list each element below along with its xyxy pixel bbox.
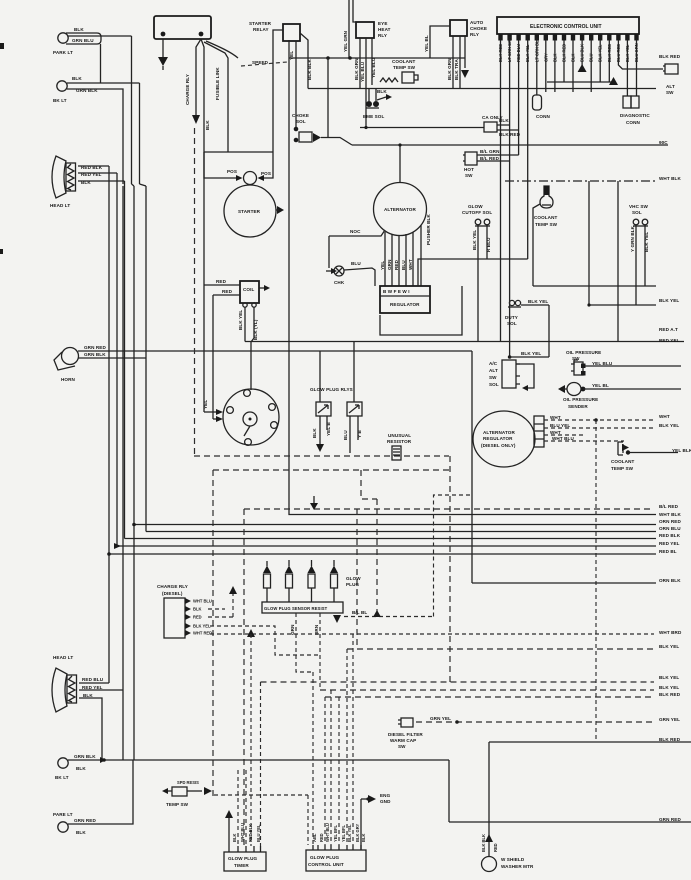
dashed x357 [356, 509, 358, 649]
svg-text:COOLANT: COOLANT [611, 459, 635, 464]
svg-text:GLOW PLUG: GLOW PLUG [228, 856, 258, 861]
charge rly pin BLK [185, 606, 191, 612]
node [326, 56, 330, 60]
svg-text:TIMER: TIMER [234, 863, 249, 868]
ECU pin 16 [634, 34, 638, 41]
wire junction headlight to columns [109, 166, 146, 186]
charge rly pin RED [185, 614, 191, 620]
wire park lt drop [100, 44, 102, 83]
svg-text:BLK YEL: BLK YEL [625, 44, 630, 62]
svg-text:HEAT: HEAT [378, 27, 391, 32]
wire starter relay pins [289, 33, 656, 515]
svg-text:WHT BLU: WHT BLU [552, 436, 574, 441]
starter solenoid [244, 172, 257, 185]
glow plug 4 [330, 566, 338, 574]
svg-text:NOC: NOC [350, 229, 361, 234]
svg-text:BLK GRN: BLK GRN [354, 58, 359, 80]
svg-text:RLY: RLY [378, 33, 387, 38]
svg-text:GRN BLK: GRN BLK [84, 352, 106, 357]
svg-text:CHARGE RLY: CHARGE RLY [157, 584, 188, 589]
svg-text:YEL: YEL [203, 400, 208, 409]
svg-text:Y B: Y B [357, 430, 362, 438]
svg-text:ALTERNATOR: ALTERNATOR [483, 430, 515, 435]
svg-text:BLU: BLU [351, 261, 361, 266]
svg-text:BLU YEL: BLU YEL [550, 423, 570, 428]
svg-text:SPD RESIS: SPD RESIS [177, 780, 199, 785]
oil pressure sender [558, 383, 609, 410]
svg-text:90C: 90C [659, 140, 668, 145]
dashed box A left [194, 128, 196, 456]
svg-text:YEL BL: YEL BL [424, 35, 429, 52]
svg-text:ABL: ABL [312, 833, 317, 842]
svg-text:SOL: SOL [507, 321, 517, 326]
node on y58 [348, 56, 352, 60]
headlight HEAD LT lower [52, 655, 104, 712]
svg-text:(DIESEL ONLY): (DIESEL ONLY) [481, 443, 516, 448]
orn blk line y583 [472, 582, 656, 584]
coolant temp sw bulb [534, 186, 558, 227]
svg-text:GRY: GRY [543, 53, 548, 62]
line y181 [505, 180, 656, 182]
long line y145 [352, 144, 668, 146]
svg-text:BLK GRY: BLK GRY [355, 823, 360, 842]
line y341 [245, 341, 684, 343]
svg-text:SPEED: SPEED [252, 60, 269, 65]
svg-text:BLK YEL: BLK YEL [659, 423, 679, 428]
svg-text:YEL BLU: YEL BLU [360, 61, 365, 82]
d4 y680 [261, 681, 655, 683]
svg-text:BLK: BLK [312, 428, 317, 438]
svg-text:YEL: YEL [380, 261, 385, 270]
svg-text:SW: SW [398, 744, 406, 749]
svg-text:BLK BLK: BLK BLK [307, 59, 312, 80]
wire bk lt horizontal [67, 82, 140, 84]
wire bus vertical x139 [139, 83, 141, 184]
svg-text:SW: SW [666, 90, 674, 95]
glow plug 3 [308, 566, 316, 574]
svg-text:WHT BLU: WHT BLU [240, 823, 245, 842]
svg-text:RED BLK: RED BLK [659, 533, 681, 538]
pare lt bottom [53, 812, 96, 835]
svg-text:BLK: BLK [232, 834, 237, 842]
svg-text:GRN BLK: GRN BLK [74, 754, 96, 759]
charge rly wire WHT RED [210, 633, 654, 635]
svg-text:CONN: CONN [536, 114, 551, 119]
svg-text:SW: SW [465, 173, 473, 178]
svg-text:WASHER MTR: WASHER MTR [501, 864, 534, 869]
svg-text:RESISTOR: RESISTOR [387, 439, 412, 444]
wire oil sw [585, 365, 681, 367]
ECU pin 14 [616, 34, 620, 41]
ECU pin 9 [571, 34, 575, 41]
svg-text:WHT BRD: WHT BRD [659, 630, 682, 635]
svg-text:WHT BLK: WHT BLK [659, 176, 681, 181]
washer feed [488, 742, 490, 856]
svg-text:BLK: BLK [377, 89, 387, 94]
svg-text:BLK: BLK [205, 120, 210, 130]
wire park lt to bus [68, 35, 132, 37]
ECU pin 1 [498, 34, 502, 41]
coil pin wires [245, 307, 254, 390]
svg-text:GND: GND [380, 799, 391, 804]
wire bk lt bottom long [68, 759, 449, 761]
svg-text:FUSIBLE LINK: FUSIBLE LINK [215, 67, 220, 100]
wire battery to relay bus [206, 41, 238, 58]
wire alternator top [399, 145, 401, 183]
svg-text:RED BLU: RED BLU [82, 677, 104, 682]
svg-text:PUSHER BLK: PUSHER BLK [426, 214, 431, 245]
svg-text:BLU: BLU [589, 54, 594, 62]
svg-text:YEL GRN: YEL GRN [343, 30, 348, 52]
wire NOC [329, 230, 385, 236]
svg-text:GRN BLU: GRN BLU [72, 38, 94, 43]
svg-text:W SHIELD: W SHIELD [501, 857, 525, 862]
ECU pin 12 [598, 34, 602, 41]
svg-text:EME SOL: EME SOL [363, 114, 384, 119]
ECU pin 5 [535, 34, 539, 41]
regulator box [380, 286, 430, 313]
svg-text:DIESEL FILTER: DIESEL FILTER [388, 732, 423, 737]
ECU pin 8 [562, 34, 566, 41]
svg-text:RED BLU: RED BLU [516, 44, 521, 62]
svg-text:TEMP SW: TEMP SW [393, 65, 416, 70]
svg-text:DIAGNOSTIC: DIAGNOSTIC [620, 113, 650, 118]
svg-text:A/C: A/C [489, 361, 498, 366]
dashed vertical x596 [595, 420, 597, 742]
ground below battery [162, 39, 164, 57]
svg-text:CUTOFF SOL: CUTOFF SOL [462, 210, 492, 215]
electronic control unit box [497, 17, 639, 34]
scan mark left 1 [0, 43, 4, 49]
svg-text:TEMP SW: TEMP SW [611, 466, 634, 471]
connector PARK LT [53, 27, 101, 55]
left column vertical x124 [124, 186, 126, 539]
svg-text:RELAY: RELAY [253, 27, 269, 32]
coolant temp sw top [380, 59, 418, 83]
dashed box A right [449, 456, 451, 682]
svg-text:BLK RED: BLK RED [499, 132, 521, 137]
long feed y88 [308, 88, 656, 90]
wire bk lt lower [67, 89, 123, 184]
svg-text:BLK: BLK [499, 118, 509, 123]
wire horn upper long [78, 350, 472, 352]
svg-text:CONN: CONN [626, 120, 641, 125]
regulator to right feed [418, 259, 487, 286]
svg-text:SOL: SOL [632, 210, 642, 215]
svg-text:RLY: RLY [470, 32, 479, 37]
starter terminal arrow [277, 206, 284, 214]
svg-text:GRN RED: GRN RED [659, 817, 681, 822]
temp sw dashes [187, 790, 202, 792]
svg-text:BLK YEL: BLK YEL [528, 299, 548, 304]
svg-text:(DIESEL): (DIESEL) [162, 591, 183, 596]
wire bulb [533, 204, 540, 286]
svg-text:BLK YEL: BLK YEL [659, 685, 679, 690]
charge rly wire RED [208, 616, 233, 618]
svg-text:RED: RED [193, 615, 202, 620]
eng gnd [361, 793, 391, 850]
svg-text:BLU BLK: BLU BLK [580, 44, 585, 62]
auto choke pins [453, 36, 465, 89]
svg-text:WHT: WHT [408, 259, 413, 270]
svg-text:ALT: ALT [666, 84, 675, 89]
svg-text:ALTERNATOR: ALTERNATOR [384, 207, 416, 212]
charge rly wire BLK [208, 608, 225, 610]
ECU pin 15 [625, 34, 629, 41]
svg-text:BRN: BRN [314, 624, 319, 635]
unusual resistor [387, 433, 412, 460]
left column vertical x117 [116, 186, 118, 546]
svg-text:BLK: BLK [361, 834, 366, 842]
svg-text:WARM CAP: WARM CAP [390, 738, 416, 743]
chk lamp [326, 261, 375, 286]
wire starter relay left [264, 30, 283, 178]
svg-text:WHT BLK: WHT BLK [659, 512, 681, 517]
svg-text:BLK: BLK [83, 693, 93, 698]
charge rly pin WHT RED [185, 630, 191, 636]
charge rly pin BLK YEL [185, 623, 191, 629]
svg-text:RED: RED [319, 833, 324, 842]
svg-text:GRN RED: GRN RED [84, 345, 106, 350]
d6 y697 [325, 696, 654, 698]
glow plug sensor resist box [262, 576, 361, 613]
svg-text:RED YEL: RED YEL [82, 685, 103, 690]
glow cutoff sol [462, 204, 492, 226]
svg-text:Y GRN BLK: Y GRN BLK [630, 225, 635, 252]
wire headlight feeds [78, 166, 125, 181]
svg-text:YEL BFL: YEL BFL [333, 825, 338, 842]
charge relay pins [185, 586, 654, 655]
dashed box A bottom [194, 455, 449, 457]
svg-text:COOLANT: COOLANT [392, 59, 416, 64]
starter motor [224, 185, 276, 237]
wire headlight lower feeds [79, 683, 123, 761]
svg-text:SENDER: SENDER [568, 404, 588, 409]
svg-text:POS: POS [261, 171, 271, 176]
svg-text:HORN: HORN [61, 377, 76, 382]
ECU pin 7 [553, 34, 557, 41]
svg-text:BLK RED: BLK RED [562, 44, 567, 62]
svg-text:LT GRN GRN: LT GRN GRN [507, 37, 512, 62]
svg-text:BLK: BLK [193, 607, 201, 612]
line y286 [533, 285, 656, 287]
svg-text:BLK YEL: BLK YEL [525, 44, 530, 62]
svg-text:HEAD LT: HEAD LT [50, 203, 70, 208]
svg-text:ALT: ALT [489, 368, 498, 373]
alt sw connector [663, 64, 678, 95]
svg-text:AUTO: AUTO [470, 20, 484, 25]
svg-text:RED BLK: RED BLK [248, 824, 253, 842]
wire x618 [617, 181, 619, 342]
sensor resist right wire [344, 616, 434, 618]
svg-text:RED: RED [222, 289, 233, 294]
wire pin4 to regulator feed [487, 258, 528, 260]
svg-text:BLU YEL: BLU YEL [256, 824, 261, 842]
svg-text:GRN YEL: GRN YEL [430, 716, 451, 721]
svg-text:PARK LT: PARK LT [53, 50, 73, 55]
svg-text:BLK YEL: BLK YEL [598, 44, 603, 62]
svg-text:BLK RED: BLK RED [498, 44, 503, 62]
svg-text:YEL: YEL [289, 51, 294, 60]
svg-text:BLK YEL: BLK YEL [193, 624, 211, 629]
svg-text:ELECTRONIC CONTROL UNIT: ELECTRONIC CONTROL UNIT [530, 24, 602, 30]
svg-text:BLK YEL: BLK YEL [659, 298, 679, 303]
emission sol [363, 89, 392, 120]
headlight HEAD LT upper [50, 156, 103, 208]
svg-text:BLK TRA: BLK TRA [454, 59, 459, 80]
d7 y722 [416, 721, 654, 723]
svg-text:CHARGE RLY: CHARGE RLY [185, 74, 190, 105]
svg-text:BLK YEL: BLK YEL [644, 232, 649, 252]
svg-text:BLK YEL: BLK YEL [659, 644, 679, 649]
svg-text:YEL BFL: YEL BFL [341, 825, 346, 842]
svg-text:BLK BLK: BLK BLK [481, 834, 486, 852]
svg-text:EYE: EYE [378, 21, 388, 26]
svg-text:DUTY: DUTY [505, 315, 518, 320]
ECU pin 6 [544, 34, 548, 41]
svg-text:RED BL: RED BL [659, 549, 677, 554]
alt reg wires dashed [544, 419, 656, 421]
svg-text:GLOW PLUG SENSOR RESIST: GLOW PLUG SENSOR RESIST [264, 606, 328, 611]
glow plug 1 [263, 566, 271, 574]
svg-text:RED: RED [394, 259, 399, 270]
ECU pin 4 [526, 34, 530, 41]
glow relay wires [320, 342, 354, 403]
ac alt sw sol [489, 360, 520, 388]
fusible link wire [204, 42, 228, 152]
wire pare lt [68, 760, 133, 824]
svg-text:HOT: HOT [464, 167, 474, 172]
svg-text:BLU RED: BLU RED [616, 44, 621, 62]
wire x123 lower [122, 186, 124, 760]
svg-text:B/L RED: B/L RED [659, 504, 679, 509]
dashed d1 y509 [244, 508, 650, 510]
left column vertical x134 [133, 186, 135, 760]
svg-text:ORN BLK: ORN BLK [659, 578, 681, 583]
wire horn lower [78, 357, 146, 359]
wire sender [583, 388, 681, 390]
d5 y690 [320, 689, 654, 691]
svg-text:SW: SW [489, 375, 497, 380]
ECU pin 13 [607, 34, 611, 41]
svg-text:TEMP SW: TEMP SW [166, 802, 189, 807]
svg-text:BLK YEL: BLK YEL [347, 824, 352, 842]
ca only connector [482, 115, 521, 137]
svg-text:CONTROL UNIT: CONTROL UNIT [308, 862, 344, 867]
svg-text:RED: RED [216, 279, 227, 284]
svg-text:CHOKE: CHOKE [470, 26, 487, 31]
svg-text:UNUSUAL: UNUSUAL [388, 433, 411, 438]
svg-text:GLOW: GLOW [468, 204, 483, 209]
eye heat rly pins [360, 38, 372, 128]
svg-text:ENG: ENG [380, 793, 391, 798]
bk lt bottom [55, 754, 96, 780]
svg-text:ORN RED: ORN RED [659, 519, 681, 524]
svg-text:YEL B: YEL B [326, 421, 331, 436]
svg-text:GRN: GRN [387, 259, 392, 270]
dashed x244 [243, 509, 245, 846]
svg-text:B/L BL: B/L BL [352, 610, 367, 615]
ECU pin 2 [507, 34, 511, 41]
dashed drops to bottom boxes [260, 682, 262, 846]
svg-text:BK LT: BK LT [55, 775, 69, 780]
svg-text:POS: POS [227, 169, 237, 174]
svg-text:GRN YEL: GRN YEL [659, 717, 680, 722]
svg-text:TEMP SW: TEMP SW [535, 222, 558, 227]
svg-text:VHC SW: VHC SW [629, 204, 649, 209]
junction arrow timer [225, 810, 233, 818]
horn [54, 345, 106, 382]
charge rly pin WHT BLU [185, 598, 191, 604]
svg-text:LT GRN BLU: LT GRN BLU [534, 37, 539, 62]
dashed jog x361 [361, 470, 377, 499]
ECU pins [498, 34, 663, 357]
arrow line under ECU [547, 81, 613, 83]
svg-text:RED YEL: RED YEL [659, 541, 680, 546]
svg-text:BLK YEL: BLK YEL [472, 230, 477, 250]
wire auto choke left [430, 26, 450, 58]
svg-text:WHT: WHT [659, 414, 670, 419]
alternator pins to regulator [385, 232, 413, 286]
svg-text:CHOKE: CHOKE [292, 113, 309, 118]
svg-text:BLK: BLK [74, 27, 84, 32]
w shield washer mtr [482, 857, 534, 872]
svg-text:BLK GRN: BLK GRN [447, 58, 452, 80]
svg-text:STARTER: STARTER [249, 21, 272, 26]
svg-text:RED: RED [493, 843, 498, 852]
dashed box B left [212, 470, 214, 800]
glow cutoff wires [478, 226, 487, 342]
wire coolant lower [630, 452, 678, 454]
svg-text:HEAD LT: HEAD LT [53, 655, 73, 660]
ECU pin 11 [589, 34, 593, 41]
svg-text:BLU: BLU [401, 260, 406, 270]
svg-text:SOL: SOL [296, 119, 306, 124]
battery box [154, 16, 211, 39]
vertical x377 [376, 499, 378, 617]
wire battery feeds down [196, 39, 204, 285]
scan mark left 2 [0, 249, 3, 254]
svg-text:WHT BLU: WHT BLU [325, 823, 330, 842]
sensor resist drops [296, 613, 313, 672]
svg-text:WHT: WHT [550, 415, 561, 420]
timer pin stubs [238, 846, 261, 852]
svg-text:BLK: BLK [571, 54, 576, 62]
duty sol [505, 300, 521, 326]
svg-text:REGULATOR: REGULATOR [390, 302, 420, 307]
svg-text:BLK YEL: BLK YEL [659, 675, 679, 680]
choke sol [292, 113, 321, 142]
control unit pin stubs [313, 845, 361, 850]
regulator loop [380, 286, 462, 335]
svg-text:WHT: WHT [550, 430, 561, 435]
svg-text:STARTER: STARTER [238, 209, 261, 214]
svg-text:REGULATOR: REGULATOR [483, 436, 513, 441]
svg-text:CHK: CHK [334, 280, 345, 285]
svg-text:B/L RED: B/L RED [480, 156, 500, 161]
svg-text:YEL BL: YEL BL [592, 383, 609, 388]
svg-text:BLK RED: BLK RED [659, 54, 681, 59]
blk red line [489, 741, 691, 743]
wire x449 corner [448, 760, 450, 822]
svg-text:BLK: BLK [76, 766, 86, 771]
wires hot sw [477, 155, 519, 161]
svg-text:BLK: BLK [76, 830, 86, 835]
svg-text:BLK RED: BLK RED [659, 737, 681, 742]
wire y822 right [449, 821, 691, 823]
pusher blk line [420, 225, 422, 286]
svg-text:ORN BLU: ORN BLU [659, 526, 681, 531]
